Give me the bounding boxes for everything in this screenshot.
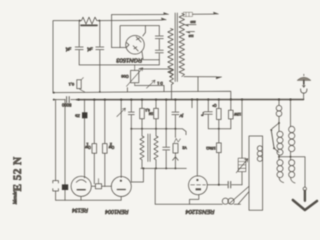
trimmer C10 with arrow bbox=[236, 100, 248, 185]
capacitor C1 (1uF) on left leg bbox=[75, 21, 83, 65]
wire heater lead with arrow bbox=[184, 77, 222, 79]
label RENS1204 bbox=[185, 208, 214, 214]
tetrode V3 RENS1204 bbox=[189, 176, 208, 195]
wire pot wiper line D1 bbox=[135, 86, 164, 92]
field coil chain 1 mid bbox=[277, 123, 283, 158]
wire diagonal to speaker 1 bbox=[230, 186, 249, 203]
label P1 bbox=[121, 74, 129, 79]
wire diagonal to speaker 2 bbox=[238, 192, 249, 204]
resistor R4 Uw2 box bbox=[103, 100, 115, 187]
capacitor C3a C3b (filament caps) on x=159.3 bbox=[155, 26, 163, 65]
wire inner top y=25.6 bbox=[120, 26, 159, 48]
label REN1004 bbox=[105, 208, 128, 214]
wire mains tap line 1 with arrow bbox=[112, 13, 169, 15]
bottom wire y=204.3 with flex curl bbox=[155, 198, 240, 204]
hum coil chain 2 upper bbox=[289, 100, 295, 158]
capacitor C8 on x=175.4 bbox=[172, 100, 184, 129]
transformer T1 primary winding bbox=[168, 29, 173, 78]
label C2 value bbox=[87, 46, 93, 51]
label C4 5000 bbox=[61, 103, 71, 108]
wire top-left loop bbox=[53, 21, 80, 93]
svg-text:REN1004: REN1004 bbox=[105, 208, 128, 214]
antenna symbol bbox=[297, 74, 310, 99]
wire branch to tube top right bbox=[143, 26, 146, 36]
junction dots on bus B bbox=[78, 99, 292, 101]
resistor R3 Uw1 box bbox=[85, 100, 97, 184]
wire stub x=192 bbox=[191, 100, 193, 108]
wire secondary top lead with arrow bbox=[193, 12, 219, 14]
wire vertical x=111.6 bbox=[111, 15, 113, 48]
wire anode V2 to IF transformer bbox=[131, 168, 143, 182]
capacitor C5 0,1 with lead to bus A bbox=[68, 78, 85, 92]
node line y=128.8 left bbox=[130, 128, 186, 135]
resistor R1 (mains dropper, zigzag) bbox=[79, 17, 101, 24]
wire horizontal y=64.9 bbox=[79, 64, 159, 66]
wire mains tap line 2 with arrow bbox=[99, 18, 166, 21]
transformer T1 core bbox=[175, 13, 177, 82]
potentiometer P1 (hum pot box) bbox=[127, 65, 143, 86]
svg-text:Mende: Mende bbox=[13, 190, 18, 205]
wire stub x=127.4 bbox=[126, 88, 128, 92]
tap arrow 220V bbox=[184, 20, 196, 26]
wire plain drop x=166.2 bbox=[165, 100, 167, 129]
label RGN1503 bbox=[116, 57, 143, 63]
resistor R2 (zigzag to bus) bbox=[139, 69, 174, 99]
transformer T1 secondary winding bbox=[179, 14, 184, 77]
ground terminal dot bbox=[303, 187, 306, 190]
svg-text:RE134: RE134 bbox=[72, 207, 88, 213]
bar under resistor R1 bbox=[81, 24, 97, 26]
wire heater to bus x=198 bbox=[197, 77, 199, 92]
switch S1 across coil bbox=[270, 123, 279, 153]
node bus B (main thick horizontal) bbox=[53, 97, 304, 103]
wire screen return x=155.2 bbox=[154, 168, 156, 204]
triode V1 RE134 bbox=[71, 176, 91, 200]
wire tube cathode stub y=59.8 bbox=[142, 52, 159, 60]
resistor R8 box 12W bbox=[229, 100, 242, 129]
capacitor C2 (1uF) on right leg bbox=[96, 21, 104, 93]
wire to ground y=156.8 bbox=[279, 157, 305, 187]
resistor R10 V2 chain with squiggle and Y bbox=[173, 129, 187, 169]
capacitor C9 on x=208.3 bbox=[204, 100, 212, 129]
bottom wire y=200.2 bbox=[56, 199, 122, 201]
label Mende bbox=[13, 190, 18, 205]
wire anode V3 bbox=[207, 184, 242, 186]
capacitor C7 on x=131.3 bbox=[128, 100, 134, 182]
resistor R5 box bbox=[140, 100, 150, 129]
svg-text:RENS1204: RENS1204 bbox=[185, 208, 214, 214]
field coil chain 1 lower with hook bbox=[277, 157, 284, 183]
electrolytic capacitor C12 left bbox=[53, 100, 59, 201]
capacitor C11 bbox=[163, 129, 170, 169]
wire cathode V3 jog bbox=[190, 195, 199, 205]
capacitor C13 block bbox=[62, 100, 68, 201]
node bus A (upper horizontal) bbox=[53, 91, 231, 99]
IF transformer T2 secondary bbox=[154, 129, 158, 169]
node line y=168.4 bbox=[141, 167, 187, 169]
tap arrow 110V bbox=[186, 32, 195, 39]
potentiometer arrow D1 bbox=[147, 80, 163, 88]
ground chassis symbol bbox=[293, 191, 317, 210]
coupling capacitor C14 box bbox=[91, 179, 111, 189]
hum coil chain 2 lower with hook bbox=[289, 157, 295, 183]
speaker box bbox=[249, 136, 263, 210]
label E 52 N bbox=[12, 156, 24, 191]
capacitor C6 Zb (block on grid line) bbox=[74, 100, 87, 178]
label secondary tap box bbox=[184, 12, 193, 16]
label C1 value bbox=[65, 46, 71, 51]
rectifier tube U1 RGN1503 bbox=[126, 36, 145, 55]
capacitor C15 on anode wire bbox=[228, 182, 231, 188]
IF transformer T2 core bbox=[148, 134, 150, 162]
triode V2 REN1004 bbox=[111, 177, 131, 201]
wire anode feed tube V3 bbox=[197, 100, 204, 176]
field coil chain 1 upper loops bbox=[276, 100, 282, 125]
svg-text:E 52 N: E 52 N bbox=[12, 156, 24, 191]
label RE134 bbox=[72, 207, 88, 213]
IF transformer T2 primary bbox=[140, 129, 144, 169]
resistor R6 box bbox=[148, 100, 158, 129]
resistor R9 15k box bbox=[206, 143, 221, 185]
wire RGN anode feed bbox=[112, 47, 127, 49]
resistor R7 box with label U* bbox=[212, 100, 221, 143]
wire grid lead tube V2 with trimmer arrow bbox=[117, 100, 126, 178]
node bar y=128.8 right bbox=[208, 128, 231, 130]
